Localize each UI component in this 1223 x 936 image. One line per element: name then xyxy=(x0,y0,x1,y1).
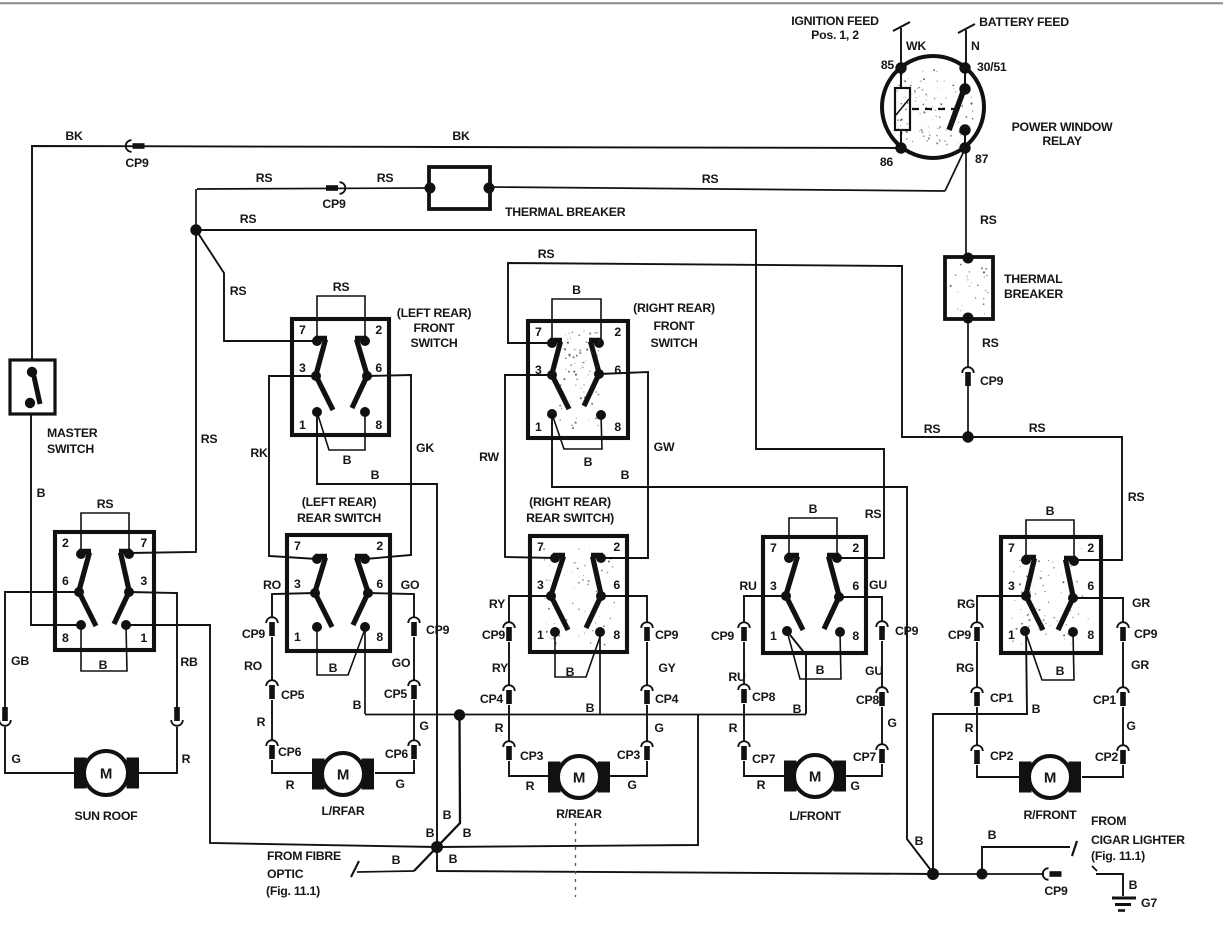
svg-text:FRONT: FRONT xyxy=(413,321,455,335)
svg-text:RS: RS xyxy=(256,171,273,185)
svg-text:R: R xyxy=(286,778,295,792)
connector CP3 on GY wire xyxy=(641,741,653,747)
wire B sun roof pin1 to bottom junction xyxy=(126,625,437,847)
connector CP9 on GY wire xyxy=(641,622,653,628)
bracket B below L/FRONT switch xyxy=(787,631,841,679)
svg-text:8: 8 xyxy=(376,630,383,644)
svg-text:B: B xyxy=(988,828,997,842)
relay coil (resistor) xyxy=(895,68,910,148)
junction bottom B node xyxy=(431,841,443,853)
svg-text:85: 85 xyxy=(881,58,895,72)
svg-text:7: 7 xyxy=(1008,541,1015,555)
wire RO left-rear rear pin3 chain to motor left xyxy=(272,593,315,773)
svg-text:2: 2 xyxy=(614,325,621,339)
wire RS breaker1 to left corner xyxy=(196,171,429,230)
svg-text:RS: RS xyxy=(230,284,247,298)
wire B to cigar lighter feed xyxy=(977,828,1078,880)
svg-text:6: 6 xyxy=(613,578,620,592)
svg-text:B: B xyxy=(621,468,630,482)
svg-text:CP7: CP7 xyxy=(853,750,877,764)
ignition feed terminal xyxy=(791,14,926,68)
svg-text:8: 8 xyxy=(614,420,621,434)
wire B left-rear rear pin8 to B bus xyxy=(353,627,365,714)
bracket B above L/FRONT switch xyxy=(789,502,837,558)
svg-text:RO: RO xyxy=(263,578,282,592)
svg-text:GW: GW xyxy=(654,440,675,454)
wire RS junction A right to corner x=756 down to L/FRONT pin 2 xyxy=(196,212,884,558)
svg-text:G7: G7 xyxy=(1141,896,1157,910)
svg-text:7: 7 xyxy=(299,323,306,337)
svg-text:3: 3 xyxy=(770,579,777,593)
connector CP7 on GU wire xyxy=(876,744,888,750)
connector CP5 on RO wire xyxy=(266,680,278,686)
svg-text:B: B xyxy=(426,826,435,840)
wire GY right-rear rear pin6 chain to motor right xyxy=(601,596,647,776)
svg-text:7: 7 xyxy=(535,325,542,339)
svg-text:B: B xyxy=(329,661,338,675)
motor R/REAR xyxy=(548,756,610,821)
svg-text:M: M xyxy=(1044,770,1056,787)
svg-text:CP9: CP9 xyxy=(948,628,972,642)
bracket B below left-rear rear switch xyxy=(317,627,365,675)
svg-text:FROM FIBRE: FROM FIBRE xyxy=(267,849,341,863)
wire RS thermal breaker 1 to relay 87 xyxy=(490,151,964,191)
svg-text:2: 2 xyxy=(376,539,383,553)
wire GW right-rear front pin6 to right-rear rear pin2 xyxy=(599,372,675,558)
connector CP9 on GU wire xyxy=(876,621,888,627)
svg-text:B: B xyxy=(1046,504,1055,518)
svg-text:R/FRONT: R/FRONT xyxy=(1024,808,1078,822)
svg-text:THERMAL: THERMAL xyxy=(1004,272,1063,286)
bracket B below right-rear front switch xyxy=(552,414,602,469)
svg-text:GO: GO xyxy=(392,656,411,670)
svg-text:G: G xyxy=(850,779,859,793)
bracket RS above left-rear front switch xyxy=(317,280,365,341)
svg-text:R: R xyxy=(182,752,191,766)
svg-text:GK: GK xyxy=(416,441,434,455)
wire GO left-rear rear pin6 chain to motor right xyxy=(368,593,414,773)
svg-text:R: R xyxy=(965,721,974,735)
svg-text:(Fig. 11.1): (Fig. 11.1) xyxy=(1091,849,1145,863)
svg-text:2: 2 xyxy=(852,541,859,555)
dashed fold mark xyxy=(575,815,577,897)
svg-text:CP9: CP9 xyxy=(482,628,506,642)
svg-text:RY: RY xyxy=(492,661,508,675)
svg-text:IGNITION FEED: IGNITION FEED xyxy=(791,14,879,28)
wire B to ground G7 xyxy=(1092,866,1138,896)
svg-text:MASTER: MASTER xyxy=(47,426,98,440)
connector CP9 on BK wire xyxy=(125,140,149,170)
svg-text:BATTERY FEED: BATTERY FEED xyxy=(979,15,1069,29)
svg-text:BK: BK xyxy=(452,129,470,143)
svg-text:87: 87 xyxy=(975,152,989,166)
wire B bus horizontal xyxy=(365,468,806,715)
svg-text:SWITCH: SWITCH xyxy=(651,336,698,350)
svg-text:M: M xyxy=(100,766,112,783)
wire RS CP9 to junction xyxy=(967,386,969,437)
svg-text:G: G xyxy=(627,778,636,792)
svg-text:1: 1 xyxy=(537,628,544,642)
svg-text:RS: RS xyxy=(702,172,719,186)
svg-text:B: B xyxy=(915,834,924,848)
(RIGHT REAR) FRONT SWITCH xyxy=(528,321,628,438)
svg-text:CP4: CP4 xyxy=(480,692,504,706)
svg-text:(RIGHT REAR): (RIGHT REAR) xyxy=(633,301,715,315)
svg-text:POWER WINDOW: POWER WINDOW xyxy=(1012,120,1113,134)
svg-text:RS: RS xyxy=(982,336,999,350)
wire B right-rear front pin1 to right junction xyxy=(552,414,933,873)
svg-text:7: 7 xyxy=(537,540,544,554)
svg-text:FRONT: FRONT xyxy=(653,319,695,333)
R/FRONT switch xyxy=(1001,537,1101,653)
connector CP1 on RG wire xyxy=(971,687,983,693)
relay dashed link xyxy=(912,108,954,110)
bracket B below sun roof switch xyxy=(81,625,127,672)
svg-text:FROM: FROM xyxy=(1091,814,1126,828)
motor R/FRONT xyxy=(1019,756,1081,822)
svg-text:6: 6 xyxy=(62,574,69,588)
svg-text:B: B xyxy=(99,658,108,672)
svg-text:RS: RS xyxy=(865,507,882,521)
motor L/FRONT xyxy=(784,755,846,823)
svg-text:RK: RK xyxy=(250,446,268,460)
svg-text:1: 1 xyxy=(1008,628,1015,642)
svg-text:CP9: CP9 xyxy=(655,628,679,642)
svg-text:CP1: CP1 xyxy=(990,691,1014,705)
svg-text:REAR SWITCH: REAR SWITCH xyxy=(297,511,381,525)
svg-text:RS: RS xyxy=(333,280,350,294)
svg-text:3: 3 xyxy=(140,574,147,588)
svg-text:RY: RY xyxy=(489,597,505,611)
svg-text:7: 7 xyxy=(294,539,301,553)
svg-text:L/RFAR: L/RFAR xyxy=(322,804,365,818)
svg-text:RU: RU xyxy=(739,579,757,593)
svg-text:1: 1 xyxy=(299,418,306,432)
svg-text:GY: GY xyxy=(658,661,675,675)
svg-text:B: B xyxy=(572,283,581,297)
svg-text:GR: GR xyxy=(1132,596,1150,610)
svg-text:1: 1 xyxy=(294,630,301,644)
bracket B below right-rear rear switch xyxy=(555,632,601,679)
(RIGHT REAR) REAR SWITCH xyxy=(530,536,627,652)
svg-text:6: 6 xyxy=(614,363,621,377)
svg-text:(Fig. 11.1): (Fig. 11.1) xyxy=(266,884,320,898)
connector CP2 on RG wire xyxy=(971,745,983,751)
svg-text:CP9: CP9 xyxy=(125,156,149,170)
connector CP9 on RG wire xyxy=(971,622,983,628)
wire B right-rear rear pin8 to B bus xyxy=(586,632,600,715)
bracket B below R/FRONT switch xyxy=(1025,631,1074,680)
bracket B above right-rear front switch xyxy=(552,283,601,343)
svg-text:L/FRONT: L/FRONT xyxy=(789,809,841,823)
svg-text:CP2: CP2 xyxy=(990,749,1014,763)
connector break on GB wire xyxy=(2,707,8,721)
svg-text:CP8: CP8 xyxy=(856,693,880,707)
svg-text:SWITCH: SWITCH xyxy=(411,336,458,350)
svg-text:THERMAL BREAKER: THERMAL BREAKER xyxy=(505,205,626,219)
svg-text:6: 6 xyxy=(852,579,859,593)
svg-text:CP9: CP9 xyxy=(1134,627,1158,641)
bracket B above R/FRONT switch xyxy=(1026,504,1074,560)
connector CP2 on GR wire xyxy=(1117,745,1129,751)
svg-text:RS: RS xyxy=(97,497,114,511)
wire B L/FRONT drop to bottom junction xyxy=(437,715,698,848)
svg-text:BREAKER: BREAKER xyxy=(1004,287,1063,301)
thermal breaker 1 xyxy=(425,167,626,219)
svg-text:1: 1 xyxy=(535,420,542,434)
svg-text:2: 2 xyxy=(613,540,620,554)
svg-text:B: B xyxy=(392,853,401,867)
wire BK from relay 86 to master switch xyxy=(32,146,901,360)
svg-text:86: 86 xyxy=(880,155,894,169)
(LEFT REAR) FRONT SWITCH xyxy=(292,319,389,435)
svg-text:RB: RB xyxy=(180,655,198,669)
wire RS junction A to (LEFT REAR) FRONT switch pin 7 xyxy=(196,230,317,341)
connector CP9 on RS wire xyxy=(322,182,346,211)
connector CP9 near cigar lighter xyxy=(1043,868,1068,898)
thermal breaker 2 xyxy=(945,253,1063,324)
svg-text:G: G xyxy=(11,752,20,766)
svg-text:BK: BK xyxy=(65,129,83,143)
wire B right junction to CP9 xyxy=(933,873,1044,875)
svg-text:1: 1 xyxy=(140,631,147,645)
svg-text:8: 8 xyxy=(1087,628,1094,642)
svg-text:CP2: CP2 xyxy=(1095,750,1119,764)
svg-text:CP3: CP3 xyxy=(617,748,641,762)
svg-text:OPTIC: OPTIC xyxy=(267,867,304,881)
svg-text:B: B xyxy=(566,665,575,679)
svg-text:CP9: CP9 xyxy=(980,374,1004,388)
svg-text:CP7: CP7 xyxy=(752,752,776,766)
svg-text:B: B xyxy=(37,486,46,500)
wire RG R/FRONT pin3 chain to motor left xyxy=(977,596,1026,777)
svg-text:(LEFT REAR): (LEFT REAR) xyxy=(302,495,377,509)
wire GB sun roof pin6 to motor left xyxy=(5,592,79,773)
svg-text:RO: RO xyxy=(244,659,263,673)
svg-text:RS: RS xyxy=(240,212,257,226)
svg-text:B: B xyxy=(463,826,472,840)
power window relay K1 xyxy=(880,56,1007,169)
wire RK left-rear front pin3 to left-rear rear pin7 xyxy=(250,376,317,559)
wire RY right-rear rear pin3 chain to motor left xyxy=(509,596,551,776)
svg-text:CP9: CP9 xyxy=(322,197,346,211)
svg-text:CP1: CP1 xyxy=(1093,693,1117,707)
bracket RS above sun roof switch xyxy=(81,497,129,554)
svg-text:CP5: CP5 xyxy=(384,687,408,701)
wire B from fibre optic terminal xyxy=(351,853,414,877)
junction RS node xyxy=(962,431,973,442)
svg-text:CP9: CP9 xyxy=(242,627,266,641)
wire B bus drop diagonal to bottom junction xyxy=(414,715,472,871)
svg-text:R: R xyxy=(495,721,504,735)
svg-text:B: B xyxy=(371,468,380,482)
svg-text:G: G xyxy=(887,716,896,730)
svg-text:G: G xyxy=(1126,719,1135,733)
svg-text:CP5: CP5 xyxy=(281,688,305,702)
svg-text:CIGAR LIGHTER: CIGAR LIGHTER xyxy=(1091,833,1185,847)
svg-text:CP6: CP6 xyxy=(278,745,302,759)
svg-text:M: M xyxy=(573,770,585,787)
svg-text:RS: RS xyxy=(201,432,218,446)
connector CP1 on GR wire xyxy=(1117,687,1129,693)
svg-text:G: G xyxy=(654,721,663,735)
connector CP6 on GO wire xyxy=(408,740,420,746)
motor SUN ROOF xyxy=(74,751,139,823)
svg-text:M: M xyxy=(337,767,349,784)
svg-text:CP4: CP4 xyxy=(655,692,679,706)
motor L/REAR xyxy=(312,753,374,818)
svg-text:R: R xyxy=(757,778,766,792)
svg-text:SUN ROOF: SUN ROOF xyxy=(75,809,139,823)
wire B left-rear front pin1 to bottom junction xyxy=(317,412,437,847)
svg-text:1: 1 xyxy=(770,629,777,643)
svg-text:(LEFT REAR): (LEFT REAR) xyxy=(397,306,472,320)
svg-text:N: N xyxy=(971,39,980,53)
svg-text:WK: WK xyxy=(906,39,926,53)
junction right B node xyxy=(927,868,939,880)
svg-text:B: B xyxy=(586,701,595,715)
wire RS breaker2 to CP9 xyxy=(968,318,999,367)
svg-text:3: 3 xyxy=(299,361,306,375)
svg-text:RS: RS xyxy=(980,213,997,227)
wire RW right-rear front pin3 to right-rear rear pin7 xyxy=(479,375,555,558)
svg-text:RS: RS xyxy=(1128,490,1145,504)
svg-text:B: B xyxy=(343,453,352,467)
svg-text:G: G xyxy=(395,777,404,791)
connector CP4 on GY wire xyxy=(641,685,653,691)
svg-text:SWITCH: SWITCH xyxy=(47,442,94,456)
wire B L/FRONT pin1 to B bus xyxy=(787,631,806,716)
svg-text:RU: RU xyxy=(728,670,746,684)
svg-text:8: 8 xyxy=(375,418,382,432)
wire B master switch to sun roof switch pin 8 xyxy=(31,414,81,625)
ground G7 xyxy=(1112,896,1157,911)
svg-text:2: 2 xyxy=(1087,541,1094,555)
svg-text:RG: RG xyxy=(956,661,974,675)
svg-text:RW: RW xyxy=(479,450,499,464)
svg-text:R/REAR: R/REAR xyxy=(556,807,602,821)
svg-text:RS: RS xyxy=(924,422,941,436)
wire GU L/FRONT pin6 chain to motor right xyxy=(839,597,882,776)
connector CP4 on RY wire xyxy=(503,685,515,691)
svg-text:7: 7 xyxy=(770,541,777,555)
wire GK left-rear front pin6 to left-rear rear pin2 xyxy=(365,375,434,559)
svg-text:CP3: CP3 xyxy=(520,749,544,763)
svg-text:3: 3 xyxy=(1008,579,1015,593)
svg-text:R: R xyxy=(526,779,535,793)
connector CP8 on RU wire xyxy=(738,684,750,690)
svg-text:2: 2 xyxy=(62,536,69,550)
(LEFT REAR) REAR SWITCH xyxy=(287,535,390,651)
connector CP9 on GR wire xyxy=(1117,622,1129,628)
svg-text:B: B xyxy=(443,808,452,822)
svg-text:B: B xyxy=(1032,702,1041,716)
wire RB sun roof pin3 to motor right xyxy=(129,592,198,773)
svg-text:B: B xyxy=(1129,878,1138,892)
connector CP5 on GO wire xyxy=(408,680,420,686)
svg-text:GB: GB xyxy=(11,654,29,668)
svg-text:GU: GU xyxy=(869,578,887,592)
svg-text:B: B xyxy=(449,852,458,866)
connector CP8 on GU wire xyxy=(876,687,888,693)
connector CP6 on RO wire xyxy=(266,740,278,746)
wire B bus lower horizontal to right junction xyxy=(437,847,933,874)
svg-text:G: G xyxy=(419,719,428,733)
svg-text:B: B xyxy=(809,502,818,516)
svg-text:B: B xyxy=(816,663,825,677)
svg-text:Pos. 1, 2: Pos. 1, 2 xyxy=(811,28,859,42)
wire RS relay 87 to thermal breaker 2 xyxy=(966,153,997,257)
relay switch contact xyxy=(949,68,971,148)
wire RS junction left leg to (RIGHT REAR) FRONT switch pin 7 xyxy=(508,247,968,437)
wire B R/FRONT pin1 to junction xyxy=(933,632,1041,873)
svg-text:CP8: CP8 xyxy=(752,690,776,704)
connector CP7 on RU wire xyxy=(738,741,750,747)
wire RS junction A down to SUN ROOF switch pin 7 xyxy=(129,230,217,553)
svg-text:RS: RS xyxy=(377,171,394,185)
connector CP9 on RU wire xyxy=(738,622,750,628)
svg-text:8: 8 xyxy=(852,629,859,643)
svg-text:B: B xyxy=(584,455,593,469)
SUN ROOF (master) switch xyxy=(55,532,154,650)
L/FRONT switch xyxy=(763,537,866,653)
svg-text:CP6: CP6 xyxy=(385,747,409,761)
svg-text:RG: RG xyxy=(957,597,975,611)
connector break on RB wire xyxy=(174,707,180,721)
svg-text:RS: RS xyxy=(1029,421,1046,435)
junction B bus node xyxy=(454,709,465,720)
svg-text:8: 8 xyxy=(62,631,69,645)
svg-text:R: R xyxy=(257,715,266,729)
connector CP9 on RO wire xyxy=(266,617,278,623)
master switch xyxy=(10,360,55,414)
svg-text:8: 8 xyxy=(613,628,620,642)
svg-text:30/51: 30/51 xyxy=(977,60,1007,74)
svg-text:M: M xyxy=(809,769,821,786)
svg-text:GO: GO xyxy=(401,578,420,592)
svg-text:B: B xyxy=(353,698,362,712)
svg-text:CP9: CP9 xyxy=(1044,884,1068,898)
svg-text:R: R xyxy=(729,721,738,735)
svg-text:GR: GR xyxy=(1131,658,1149,672)
junction RS node A xyxy=(190,224,201,235)
page border top xyxy=(0,2,1223,4)
svg-text:3: 3 xyxy=(294,577,301,591)
svg-text:3: 3 xyxy=(537,578,544,592)
svg-text:2: 2 xyxy=(375,323,382,337)
svg-text:CP9: CP9 xyxy=(711,629,735,643)
svg-text:GU: GU xyxy=(865,664,883,678)
wire RU L/FRONT pin3 chain to motor left xyxy=(744,596,786,776)
bracket B below left-rear front switch xyxy=(317,412,365,467)
svg-text:6: 6 xyxy=(376,577,383,591)
connector CP9 on GO wire xyxy=(408,617,420,623)
wire RS junction to R/FRONT switch pin 2 xyxy=(968,421,1144,560)
svg-text:7: 7 xyxy=(140,536,147,550)
svg-text:RELAY: RELAY xyxy=(1042,134,1081,148)
battery feed terminal xyxy=(958,15,1069,68)
svg-text:REAR SWITCH): REAR SWITCH) xyxy=(526,511,614,525)
svg-text:6: 6 xyxy=(1087,579,1094,593)
connector CP9 on RY wire xyxy=(503,622,515,628)
wire GR R/FRONT pin6 chain to motor right xyxy=(1073,598,1123,777)
connector CP9 below breaker 2 xyxy=(962,367,1003,388)
svg-text:RS: RS xyxy=(538,247,555,261)
svg-text:6: 6 xyxy=(375,361,382,375)
svg-text:B: B xyxy=(1056,664,1065,678)
svg-text:(RIGHT REAR): (RIGHT REAR) xyxy=(529,495,611,509)
connector CP3 on RY wire xyxy=(503,741,515,747)
